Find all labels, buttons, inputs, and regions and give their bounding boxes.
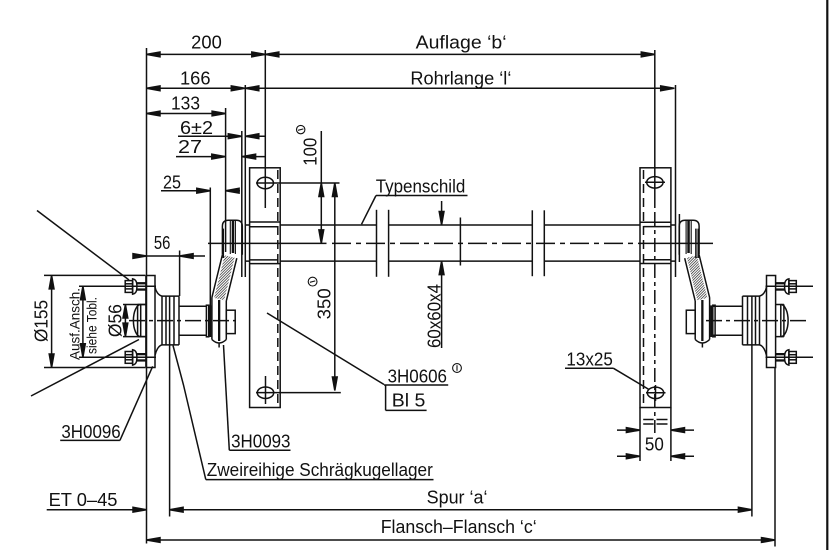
dimension 6+-2 line: [178, 135, 242, 137]
dimension 56 line: [133, 255, 205, 257]
right stub washer: [713, 305, 715, 337]
left hub centerline: [129, 320, 236, 322]
left stub heavy ring: [209, 305, 211, 337]
left hub neck fillets: [155, 287, 162, 356]
right bottom lug bolt centerline: [766, 356, 814, 358]
weld ring pair 1: [376, 210, 378, 277]
extension line left flange face x147: [146, 48, 148, 544]
tube left end cap: [241, 131, 243, 277]
dimension Rohrlange l line: [245, 87, 674, 89]
left bracket bottom hole: [257, 387, 273, 398]
dimension 50 lower line: [617, 455, 640, 457]
svg-text:25: 25: [163, 172, 181, 192]
left hub mounting face line / spur extension: [169, 296, 171, 516]
marker circled 1 at 350: [308, 277, 317, 286]
svg-text:Spur ‘a‘: Spur ‘a‘: [427, 488, 488, 508]
left pilot cylinder: [138, 305, 146, 337]
weld ring pair 2: [531, 210, 533, 276]
label 3H0606 underline and Bl 5 box: [384, 385, 448, 410]
right pilot arc: [781, 305, 788, 337]
svg-text:166: 166: [180, 69, 211, 89]
left top lug bolt: [125, 279, 146, 294]
left stub washer: [206, 305, 208, 337]
left arm eye section: [212, 298, 226, 344]
left bearing spacer: [226, 310, 235, 333]
svg-text:Typenschild: Typenschild: [376, 177, 466, 197]
dimension 133 line: [147, 113, 226, 115]
tube centerline solid right segment: [648, 242, 713, 244]
axle tube top edge: [246, 224, 676, 226]
svg-text:Ø56: Ø56: [106, 304, 126, 337]
dimension Ausf Ansch line: [82, 286, 84, 357]
marker circled 1 at 100: [297, 125, 305, 133]
right hub drum outline: [743, 296, 760, 345]
left pilot arc: [133, 305, 140, 337]
left stub spindle: [179, 306, 206, 335]
svg-text:Flansch–Flansch ‘c‘: Flansch–Flansch ‘c‘: [381, 517, 537, 537]
dimension D56 line: [124, 305, 126, 337]
right bracket lower continuation: [639, 408, 641, 462]
leader 3H0096: [120, 366, 153, 440]
leader to top bolt: [37, 211, 129, 281]
svg-text:27: 27: [178, 137, 202, 157]
svg-text:50: 50: [645, 434, 664, 454]
svg-text:ET 0–45: ET 0–45: [49, 490, 118, 510]
dimension Auflage b line: [265, 53, 655, 55]
weld bead lines at right bracket: [640, 222, 671, 263]
right stub heavy ring: [710, 305, 712, 337]
right arm slot bar: [701, 300, 703, 341]
axle tube bottom edge: [246, 260, 676, 262]
dimension 27 line: [176, 156, 226, 158]
left top lug bolt centerline: [79, 285, 156, 287]
left arm slot bar: [218, 300, 220, 341]
extension line arm face x210.3: [209, 188, 211, 307]
svg-text:56: 56: [154, 233, 171, 253]
dimension 350 line: [334, 183, 336, 391]
svg-text:6±2: 6±2: [180, 118, 213, 138]
leader Typenschild: [362, 196, 377, 225]
right bracket bottom hole: [647, 387, 663, 398]
right arm hatched band: [685, 255, 710, 301]
leader 13x25: [614, 368, 650, 389]
left bracket hidden edge dashed: [277, 170, 279, 406]
tube center weld seam: [459, 218, 461, 266]
extension line bearing face x225.6: [225, 108, 227, 252]
dimension Spur a line: [170, 509, 752, 511]
svg-text:Ausf.Ansch.: Ausf.Ansch.: [68, 288, 83, 360]
dimension 25 line: [161, 190, 210, 192]
right hub flange plate: [767, 276, 776, 368]
svg-text:Ø155: Ø155: [32, 300, 52, 342]
svg-text:Rohrlange ‘l‘: Rohrlange ‘l‘: [410, 69, 511, 89]
svg-text:350: 350: [315, 288, 335, 319]
tube centerline dash-dot: [332, 242, 648, 244]
svg-text:60x60x4: 60x60x4: [425, 284, 445, 348]
svg-text:13x25: 13x25: [566, 350, 612, 370]
right bracket break marks: [643, 419, 653, 421]
dimension 200 line: [147, 53, 266, 55]
dimension 50 upper line: [617, 429, 640, 431]
right hub neck fillets: [760, 287, 767, 356]
right bushing rubber bar: [687, 220, 690, 253]
right hub centerline: [706, 320, 806, 322]
extension line bracket hole center x265: [264, 50, 266, 208]
right bracket plate: [640, 168, 671, 408]
left bracket top hole: [257, 177, 273, 188]
right pivot bushing: [679, 220, 699, 255]
dimension 60x60x4 arrows: [441, 201, 443, 225]
svg-text:3H0096: 3H0096: [61, 422, 120, 442]
extension line 56 dim right x179.6: [179, 251, 181, 297]
right flange outer face extension: [774, 368, 776, 547]
dimension D56 extension lines: [123, 305, 146, 337]
left pivot face tab: [222, 229, 224, 258]
svg-text:200: 200: [191, 33, 222, 53]
left bushing rubber bar: [232, 220, 235, 253]
left bracket plate: [250, 168, 281, 408]
right bottom lug bolt: [775, 350, 796, 365]
leader 3H0606: [267, 313, 384, 385]
right top lug bolt centerline: [766, 285, 814, 287]
dimension 100 line: [320, 131, 322, 243]
right bracket hidden edge dashed: [643, 170, 645, 406]
right hub mounting face line / spur extension: [751, 296, 753, 516]
dimension Flansch-Flansch c line: [147, 539, 776, 541]
tube right end cap: [675, 85, 677, 277]
tube centerline solid left segment: [208, 242, 327, 244]
svg-text:Bl 5: Bl 5: [392, 391, 426, 411]
weld bead lines at left bracket: [250, 222, 281, 264]
right pivot face tab: [696, 229, 698, 258]
left arm hatched band: [212, 255, 237, 301]
dimension D155 line: [51, 275, 53, 367]
leader to pilot: [31, 340, 139, 397]
svg-text:siehe Tobl.: siehe Tobl.: [85, 297, 100, 354]
dimension 166 line: [147, 87, 245, 89]
svg-text:133: 133: [171, 94, 200, 114]
dimension ET 0-45 line: [47, 509, 147, 511]
right pilot cylinder: [776, 305, 784, 337]
left hub drum outline: [162, 296, 179, 345]
svg-text:Zweireihige Schrägkugellager: Zweireihige Schrägkugellager: [207, 460, 433, 480]
right bracket centerline dashed: [654, 212, 656, 433]
marker circled 1 at 3H0606: [453, 364, 462, 373]
right stub spindle: [713, 306, 743, 335]
right top lug bolt: [775, 279, 796, 294]
svg-text:100: 100: [300, 138, 320, 166]
left pivot bushing: [222, 220, 242, 255]
left hub flange plate: [146, 276, 155, 368]
svg-text:3H0606: 3H0606: [388, 367, 447, 387]
right bracket top hole: [647, 177, 663, 188]
leader 3H0093: [224, 345, 230, 450]
left bottom lug bolt centerline: [79, 356, 156, 358]
svg-text:Auflage ‘b‘: Auflage ‘b‘: [416, 33, 507, 53]
left bottom lug bolt: [125, 350, 146, 365]
svg-text:3H0093: 3H0093: [231, 432, 290, 452]
right bearing spacer: [686, 310, 695, 333]
extension line right bracket hole center x654.8: [654, 50, 656, 208]
right arm eye section: [695, 298, 709, 344]
page edge line: [826, 0, 828, 550]
leader Zweireihige: [173, 346, 206, 480]
dimension D155 extension lines: [44, 275, 145, 367]
